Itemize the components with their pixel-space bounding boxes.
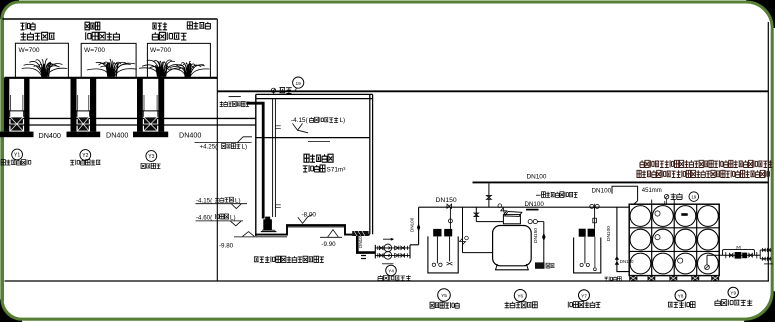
svg-text:DN150: DN150 [436,197,457,204]
svg-text:DN100: DN100 [606,226,612,241]
dosing rod Y7 [594,237,596,268]
filter head [503,215,520,224]
svg-text:Y6: Y6 [517,294,523,300]
filter head lid [505,212,522,217]
mixer shafts Y5 [436,236,438,263]
bypass loop with M valve [723,249,755,255]
label circle Y9 [728,287,738,297]
pipe bracket to clean tank [612,186,638,205]
device label Y3 [146,151,157,162]
well 2 footing [67,132,101,138]
svg-text:+4.25(: +4.25( [200,144,219,151]
tank volume text [303,165,325,172]
svg-text:DN400: DN400 [179,131,201,140]
label circle Y4 [386,265,397,276]
well 3 walls [137,78,143,132]
riser box 1 [15,43,68,77]
svg-text:Y9: Y9 [730,290,736,296]
drop into dosing tank Y7 [594,207,596,228]
black corner patch bottom-left [0,299,22,322]
pump suction drain stub [361,256,366,259]
frame vertical divider [216,19,218,281]
riser box 2 [81,43,136,77]
storage tank floor profile [255,225,352,235]
left green band thickening [0,17,4,301]
city water note text [536,194,541,196]
well 1 footing [0,132,33,138]
riser box 3 [147,43,210,77]
svg-text:(M): (M) [736,246,741,250]
svg-text:DN100: DN100 [525,201,545,208]
inlet pipe double line to storage tank [5,117,257,119]
svg-text:-9.80: -9.80 [219,242,234,249]
plant tuft 3a [139,60,184,77]
svg-text:W=700: W=700 [19,47,40,54]
filter drain down pipe [543,222,545,268]
svg-text:DN400: DN400 [39,131,61,140]
dosing tank Y7 body [574,238,601,273]
pump branch bottom [375,254,410,256]
dosing tank Y7 mixer motor [579,229,586,237]
city water main DN100 thick [473,181,769,183]
plant tuft 3b [168,61,209,77]
svg-text:DN100: DN100 [409,217,414,232]
frame right vertical [767,22,769,281]
well 2 guide rails [77,95,79,111]
tank outlet pit hatch [352,231,368,236]
dash below pumps [382,263,394,265]
svg-text:Y8: Y8 [678,294,684,300]
well 3 footing [133,132,168,138]
black corner patch bottom-right [744,291,775,322]
well 1 walls [4,78,9,132]
sand filter vessel body [493,226,532,266]
rainwater storage tank top slab [256,93,373,95]
sump pit tiny label [604,277,621,281]
right stub fittings lower [760,258,771,260]
tank name text [304,154,333,162]
module tank vent stubs [651,200,653,205]
well 1 gate valve box [11,117,23,130]
inspection port label group 1 [20,22,35,30]
design note text line 1 [640,160,772,167]
ground line right section [217,90,768,92]
overflow tag circle clean tank [689,192,699,202]
storage tank right wall [369,94,371,234]
svg-text:-4.15(: -4.15( [291,117,309,124]
label circle Y5 [438,289,451,302]
module tank small fittings [655,211,660,216]
svg-text:DN100: DN100 [592,187,612,194]
black corner patch top-right [746,0,775,28]
svg-text:19: 19 [691,195,696,200]
svg-text:19: 19 [296,81,302,87]
thick suction pipe from tank pit [357,236,375,253]
storage tank left wall [255,94,257,236]
filter drain blob [535,262,545,268]
pipe level marks [275,126,281,208]
pump branch top [375,247,410,249]
inspection port label group 3 [152,22,167,30]
label circle Y6 [514,290,526,302]
well 1 gate frame [8,110,25,112]
branch to filter head [475,207,477,221]
svg-text:Y1: Y1 [14,153,20,159]
well 3 guide rails [143,95,145,111]
submersible pump in tank sump [263,219,272,230]
note under tank [254,256,324,262]
right stub fittings upper [759,250,761,259]
svg-text:Y2: Y2 [82,153,88,159]
svg-text:S71m³: S71m³ [327,167,346,174]
angle valve to filter head [501,208,507,214]
svg-text:L): L) [242,144,248,151]
svg-text:DN150: DN150 [620,259,634,264]
plant tuft 2 [87,59,137,77]
well 2 walls [71,78,77,132]
filter head feed line [476,221,503,223]
ground line left section [5,77,218,79]
frame bottom line [5,280,770,282]
pump group manifolds [374,245,376,259]
black corner patch top-left [0,0,19,19]
svg-text:Y5: Y5 [441,293,447,299]
outlet pipe from clean tank [707,254,760,256]
svg-text:Y3: Y3 [148,154,154,160]
well 2 gate frame [76,110,92,112]
svg-text:451mm: 451mm [642,188,662,194]
well 3 gate frame [142,110,160,112]
flow arrow above pumps [383,238,394,240]
module tank feet [629,276,637,281]
design note text line 2 [637,170,769,177]
city water drop pipe [488,183,490,207]
main discharge pipe to clean tank [419,206,629,208]
overflow tag circle Y19 [293,77,304,88]
short stub line [764,263,773,265]
well 1 guide rails [10,95,12,111]
label circle Y7 [579,290,590,301]
device label Y2 [80,150,91,161]
union fitting on feed line [590,204,594,208]
frame line top-left section [3,18,218,20]
dosing drop line into Y5 [449,207,451,229]
svg-text:-9.90: -9.90 [322,241,337,248]
module tank cell circles [630,206,651,227]
mixer shaft Y7 [584,237,586,264]
svg-text:DN100: DN100 [358,233,363,248]
suction pipe pair in tank [272,99,274,217]
water level line [256,137,370,139]
inspection port label group 2 [85,22,100,30]
svg-text:W=700: W=700 [84,47,105,54]
branch to filter bottom with angle valve [462,207,464,252]
svg-text:DN100: DN100 [527,173,547,180]
drop pipe into clean tank [617,207,629,271]
elevation -9.80 with flag [234,236,257,238]
module tank body grid [629,204,719,275]
filter bottom feed line [463,252,493,254]
valve on main line [447,204,452,208]
svg-text:Y4: Y4 [388,269,394,275]
solenoid valve block [735,252,742,259]
well 2 gate valve box [78,117,89,130]
svg-text:DN400: DN400 [106,131,128,140]
svg-text:W=700: W=700 [150,47,171,54]
riser pipe to main line [410,207,419,245]
overflow symbol at tank top [271,88,275,92]
svg-text:Y7: Y7 [581,293,587,299]
svg-text:-8.00: -8.00 [302,211,317,218]
svg-text:DN150: DN150 [533,228,539,243]
floor elevation -9.90 with flag [320,236,342,238]
filter outlet fittings [528,220,532,224]
thick rain inlet pipe elbow [247,103,264,218]
plant tuft 1 [22,59,68,77]
label above inlet pipe [229,96,241,98]
device label Y1 [12,149,23,160]
filter skirt base [496,264,529,270]
clean tank outlet strainer [706,255,708,265]
mixer propellers Y5 [432,263,435,266]
well 3 gate valve box [144,117,157,130]
dosing tank Y5 mixer motor [433,229,441,237]
label circle Y8 [675,290,686,301]
dosing tank Y5 body [428,236,458,273]
overflow symbol clean tank [664,194,668,198]
svg-text:L): L) [340,117,346,124]
elevation +4.25 with flag [195,142,252,144]
